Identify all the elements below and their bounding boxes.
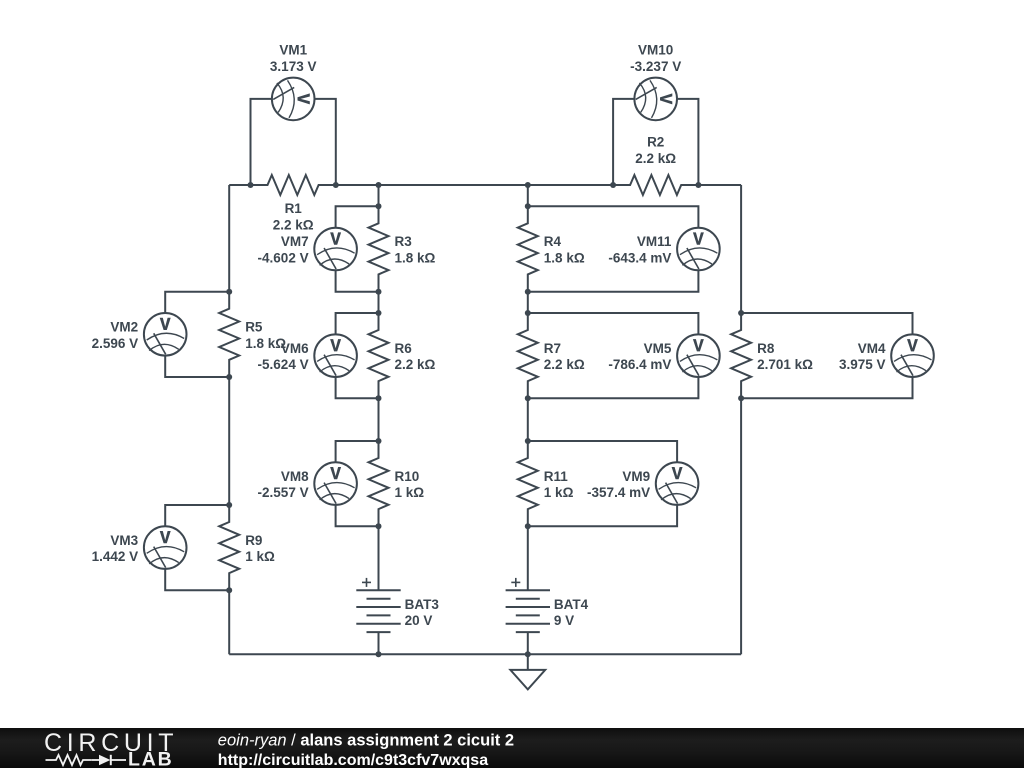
svg-text:VM4: VM4 bbox=[858, 341, 886, 356]
svg-text:VM5: VM5 bbox=[644, 341, 672, 356]
resistor R10 bbox=[369, 441, 389, 526]
wire VM4 loop bbox=[741, 313, 912, 334]
svg-text:1.442 V: 1.442 V bbox=[92, 549, 139, 564]
junction left-291 bbox=[226, 289, 232, 295]
resistor R7 bbox=[518, 313, 538, 398]
wire right vertical lower bbox=[740, 398, 742, 654]
voltmeter VM8 bbox=[314, 462, 357, 505]
voltmeter VM7 bbox=[314, 228, 357, 271]
junction mid-441 bbox=[376, 438, 382, 444]
junction mid-313 bbox=[376, 310, 382, 316]
wire VM7 loop bbox=[336, 206, 379, 227]
wire VM1 left bbox=[251, 99, 272, 185]
resistor R2 bbox=[613, 175, 698, 195]
resistor R4 bbox=[518, 206, 538, 291]
wire top rail left segment bbox=[229, 184, 250, 186]
junction col3-313 bbox=[525, 310, 531, 316]
svg-text:R3: R3 bbox=[395, 234, 413, 249]
wire bottom rail bbox=[229, 653, 741, 655]
wire VM3 loop bbox=[165, 505, 229, 526]
svg-text:R9: R9 bbox=[245, 533, 262, 548]
wire mid vertical stub3 bbox=[378, 398, 380, 441]
junction left-590 bbox=[226, 587, 232, 593]
svg-text:R10: R10 bbox=[395, 469, 420, 484]
svg-text:-786.4 mV: -786.4 mV bbox=[608, 357, 671, 372]
junction col3-526 bbox=[525, 523, 531, 529]
svg-text:1 kΩ: 1 kΩ bbox=[544, 485, 574, 500]
svg-text:VM7: VM7 bbox=[281, 234, 309, 249]
junction R2 right bbox=[695, 182, 701, 188]
svg-text:1 kΩ: 1 kΩ bbox=[245, 549, 275, 564]
svg-text:VM1: VM1 bbox=[279, 43, 307, 58]
svg-text:R7: R7 bbox=[544, 341, 561, 356]
svg-text:-5.624 V: -5.624 V bbox=[258, 357, 309, 372]
junction col3-654 bbox=[525, 651, 531, 657]
resistor R9 bbox=[219, 505, 239, 590]
junction col3-291 bbox=[525, 289, 531, 295]
wire VM10 left bbox=[613, 99, 634, 185]
svg-text:2.2 kΩ: 2.2 kΩ bbox=[635, 151, 676, 166]
battery BAT4 bbox=[511, 581, 520, 583]
battery BAT3 bbox=[362, 581, 371, 583]
svg-text:2.596 V: 2.596 V bbox=[92, 336, 139, 351]
junction mid-654 bbox=[376, 651, 382, 657]
svg-text:eoin-ryan / alans assignment 2: eoin-ryan / alans assignment 2 cicuit 2 bbox=[218, 731, 514, 749]
resistor R11 bbox=[518, 441, 538, 526]
svg-text:R6: R6 bbox=[395, 341, 413, 356]
junction mid-top bbox=[376, 182, 382, 188]
wire top rail right segment bbox=[698, 184, 741, 186]
svg-text:9 V: 9 V bbox=[554, 613, 574, 628]
svg-text:VM2: VM2 bbox=[110, 320, 138, 335]
svg-text:-643.4 mV: -643.4 mV bbox=[608, 251, 671, 266]
svg-text:BAT4: BAT4 bbox=[554, 597, 589, 612]
svg-text:2.2 kΩ: 2.2 kΩ bbox=[544, 357, 585, 372]
voltmeter VM4 bbox=[891, 334, 934, 377]
wire left vertical upper bbox=[228, 185, 230, 292]
wire mid vertical stub5 bbox=[378, 632, 380, 654]
wire VM9 loop bbox=[528, 441, 677, 462]
svg-text:2.701 kΩ: 2.701 kΩ bbox=[757, 357, 813, 372]
wire VM8 loop bbox=[336, 441, 379, 462]
wire mid vertical stub4 bbox=[378, 526, 380, 590]
svg-text:2.2 kΩ: 2.2 kΩ bbox=[273, 217, 314, 232]
junction col3-441 bbox=[525, 438, 531, 444]
logo diode bbox=[99, 755, 110, 765]
junction right-313 bbox=[738, 310, 744, 316]
svg-text:1.8 kΩ: 1.8 kΩ bbox=[544, 251, 585, 266]
wire VM5 loop bbox=[528, 313, 699, 334]
wire mid vertical stub2 bbox=[378, 292, 380, 313]
voltmeter VM5 bbox=[677, 334, 720, 377]
voltmeter VM2 bbox=[144, 313, 187, 356]
svg-text:VM8: VM8 bbox=[281, 469, 309, 484]
resistor R6 bbox=[369, 313, 389, 398]
wire col3 vertical stub1 bbox=[527, 185, 529, 206]
junction col3-top bbox=[525, 182, 531, 188]
svg-text:VM11: VM11 bbox=[637, 234, 672, 249]
junction R1 right bbox=[333, 182, 339, 188]
resistor R1 bbox=[251, 175, 336, 195]
logo resistor squiggle bbox=[46, 755, 92, 765]
voltmeter VM11 bbox=[677, 228, 720, 271]
svg-text:-2.557 V: -2.557 V bbox=[258, 485, 309, 500]
svg-text:R1: R1 bbox=[285, 201, 303, 216]
junction right-398 bbox=[738, 395, 744, 401]
wire col3 vertical stub2 bbox=[527, 292, 529, 313]
svg-text:1.8 kΩ: 1.8 kΩ bbox=[395, 251, 436, 266]
svg-text:BAT3: BAT3 bbox=[405, 597, 440, 612]
junction R1 left bbox=[248, 182, 254, 188]
wire left vertical middle bbox=[228, 377, 230, 505]
svg-text:20 V: 20 V bbox=[405, 613, 433, 628]
voltmeter VM1 bbox=[272, 78, 315, 121]
junction mid-526 bbox=[376, 523, 382, 529]
footer bar bbox=[0, 728, 1024, 768]
junction left-505 bbox=[226, 502, 232, 508]
svg-text:VM9: VM9 bbox=[622, 469, 650, 484]
svg-text:-4.602 V: -4.602 V bbox=[258, 251, 309, 266]
junction col3-206 bbox=[525, 203, 531, 209]
wire col3 vertical stub3 bbox=[527, 398, 529, 441]
svg-text:http://circuitlab.com/c9t3cfv7: http://circuitlab.com/c9t3cfv7wxqsa bbox=[218, 752, 488, 768]
wire left vertical lower bbox=[228, 590, 230, 654]
wire col3 vertical stub5 bbox=[527, 632, 529, 654]
svg-text:VM10: VM10 bbox=[638, 43, 673, 58]
svg-text:R5: R5 bbox=[245, 320, 263, 335]
ground bbox=[527, 654, 529, 670]
resistor R3 bbox=[369, 206, 389, 291]
voltmeter VM6 bbox=[314, 334, 357, 377]
wire VM2 loop bbox=[165, 292, 229, 313]
wire VM11 loop bbox=[528, 206, 699, 227]
svg-text:-357.4 mV: -357.4 mV bbox=[587, 485, 650, 500]
svg-text:LAB: LAB bbox=[128, 749, 173, 769]
wire VM6 loop bbox=[336, 313, 379, 334]
junction mid-291 bbox=[376, 289, 382, 295]
junction mid-206 bbox=[376, 203, 382, 209]
resistor R8 bbox=[731, 313, 751, 398]
voltmeter VM9 bbox=[656, 462, 699, 505]
wire mid vertical stub1 bbox=[378, 185, 380, 206]
wire right vertical upper bbox=[740, 185, 742, 313]
svg-text:R11: R11 bbox=[544, 469, 569, 484]
svg-text:R2: R2 bbox=[647, 135, 664, 150]
wire VM10 right bbox=[677, 99, 698, 185]
svg-text:VM3: VM3 bbox=[110, 533, 138, 548]
svg-text:-3.237 V: -3.237 V bbox=[630, 59, 681, 74]
junction col3-398 bbox=[525, 395, 531, 401]
junction R2 left bbox=[610, 182, 616, 188]
svg-text:R8: R8 bbox=[757, 341, 775, 356]
junction left-377 bbox=[226, 374, 232, 380]
junction mid-398 bbox=[376, 395, 382, 401]
svg-text:1 kΩ: 1 kΩ bbox=[395, 485, 425, 500]
resistor R5 bbox=[219, 292, 239, 377]
svg-text:3.173 V: 3.173 V bbox=[270, 59, 317, 74]
wire col3 vertical stub4 bbox=[527, 526, 529, 590]
svg-text:3.975 V: 3.975 V bbox=[839, 357, 886, 372]
wire VM1 right bbox=[315, 99, 336, 185]
svg-text:2.2 kΩ: 2.2 kΩ bbox=[395, 357, 436, 372]
svg-text:VM6: VM6 bbox=[281, 341, 309, 356]
wire top rail middle segment bbox=[336, 184, 613, 186]
voltmeter VM10 bbox=[634, 78, 677, 121]
voltmeter VM3 bbox=[144, 526, 187, 569]
svg-text:R4: R4 bbox=[544, 234, 562, 249]
